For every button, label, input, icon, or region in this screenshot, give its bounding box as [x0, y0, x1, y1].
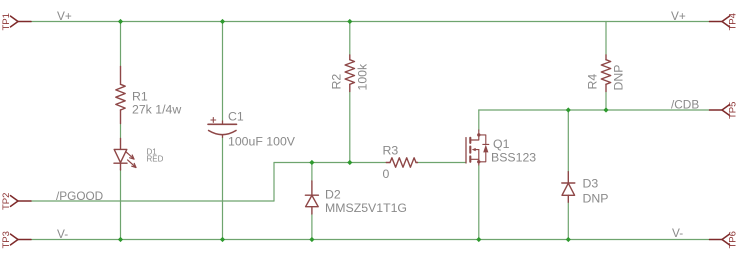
- svg-text:DNP: DNP: [583, 192, 609, 206]
- resistor R4: [601, 55, 610, 92]
- wire /CDB rail: [479, 109, 710, 111]
- wire V+ to C1: [222, 22, 224, 122]
- node junction gate net D2: [309, 160, 314, 165]
- wire R1 to D1: [120, 124, 122, 139]
- testpoint TP5: [710, 105, 730, 116]
- svg-text:100k: 100k: [356, 63, 370, 91]
- LED D1 emission arrows: [126, 152, 136, 168]
- svg-text:C1: C1: [228, 110, 244, 124]
- transistor Q1 drain/source/body connections: [472, 130, 479, 165]
- svg-text:0: 0: [383, 167, 390, 181]
- testpoint TP2: [11, 196, 32, 207]
- svg-text:TP5: TP5: [728, 102, 739, 119]
- transistor Q1 source dot: [477, 160, 480, 163]
- node junction /CDB D3: [566, 107, 571, 112]
- wire V+ to R1: [120, 22, 122, 67]
- resistor R3: [386, 158, 417, 167]
- svg-text:R1: R1: [132, 90, 148, 104]
- testpoint TP3: [11, 234, 32, 245]
- svg-text:V-: V-: [672, 226, 683, 240]
- resistor R2: [345, 55, 354, 92]
- transistor Q1 gate: [465, 138, 467, 163]
- node junction V+ C1: [220, 19, 225, 24]
- LED D1: [114, 139, 127, 171]
- wire V+ rail: [31, 21, 710, 23]
- svg-text:D2: D2: [325, 188, 341, 202]
- wire V+ to R2: [349, 22, 351, 55]
- node junction V- D3: [566, 237, 571, 242]
- svg-text:TP1: TP1: [1, 13, 12, 30]
- svg-text:V-: V-: [57, 227, 68, 241]
- capacitor C1 plus sign: [211, 118, 216, 123]
- diode D2: [305, 181, 318, 214]
- wire R4 to /CDB: [605, 92, 607, 111]
- wire /PGOOD horizontal: [31, 200, 274, 202]
- resistor R1: [116, 67, 125, 124]
- svg-text:R2: R2: [330, 74, 344, 90]
- node junction V+ R2: [347, 19, 352, 24]
- capacitor C1 leads: [222, 121, 224, 137]
- svg-text:100uF 100V: 100uF 100V: [228, 135, 296, 149]
- svg-text:R3: R3: [383, 144, 399, 158]
- svg-text:D3: D3: [583, 177, 599, 191]
- wire gate net left: [274, 162, 386, 164]
- svg-text:/CDB: /CDB: [671, 98, 699, 112]
- wire D2 to V-: [311, 214, 313, 240]
- svg-text:V+: V+: [57, 9, 72, 23]
- wire /CDB to D3: [567, 110, 569, 172]
- wire D3 to V-: [567, 202, 569, 239]
- svg-text:/PGOOD: /PGOOD: [56, 189, 103, 203]
- wire gate net right: [417, 162, 466, 164]
- svg-text:Q1: Q1: [493, 137, 510, 151]
- node junction V- C1: [220, 237, 225, 242]
- svg-text:RED: RED: [147, 155, 164, 164]
- diode D3: [562, 172, 575, 203]
- wire gate net to D2: [311, 163, 313, 182]
- wire /CDB to Q1 drain: [478, 110, 480, 130]
- transistor Q1 drain dot: [477, 133, 480, 136]
- node junction V- R1 chain: [118, 237, 123, 242]
- svg-text:TP3: TP3: [1, 231, 12, 248]
- wire D1 to V-: [120, 169, 122, 240]
- transistor Q1 body diode: [479, 135, 489, 162]
- testpoint TP4: [710, 16, 730, 27]
- svg-text:27k 1/4w: 27k 1/4w: [132, 103, 181, 117]
- wire C1 to V-: [222, 137, 224, 239]
- svg-text:V+: V+: [671, 9, 686, 23]
- wire V+ to R4: [605, 22, 607, 55]
- node junction gate net R2: [347, 160, 352, 165]
- wire /PGOOD riser: [273, 163, 275, 202]
- svg-text:BSS123: BSS123: [491, 151, 536, 165]
- svg-text:TP2: TP2: [1, 193, 12, 210]
- svg-text:DNP: DNP: [612, 65, 626, 91]
- wire Q1 source to V-: [478, 165, 480, 240]
- node junction /CDB R4: [603, 107, 608, 112]
- transistor Q1 channel bars: [469, 138, 471, 162]
- capacitor C1: [208, 124, 237, 134]
- wire R2 to gate net: [349, 92, 351, 163]
- testpoint TP6: [710, 234, 730, 245]
- node junction V+ R1: [118, 19, 123, 24]
- svg-text:MMSZ5V1T1G: MMSZ5V1T1G: [325, 201, 407, 215]
- node junction V- D2: [309, 237, 314, 242]
- svg-text:TP4: TP4: [728, 13, 739, 30]
- transistor Q1 arrow: [472, 148, 476, 151]
- wire V- rail: [31, 239, 710, 241]
- svg-text:R4: R4: [586, 74, 600, 90]
- node junction V- Q1: [476, 237, 481, 242]
- testpoint TP1: [11, 16, 32, 27]
- svg-text:TP6: TP6: [728, 231, 739, 248]
